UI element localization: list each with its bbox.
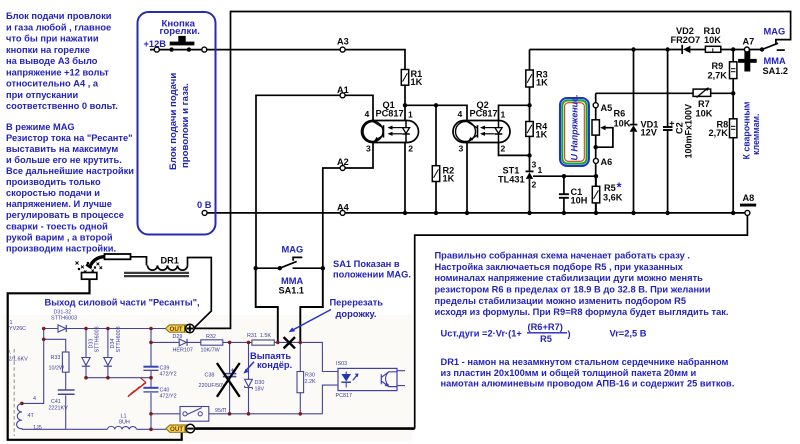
terminal circles: [154, 47, 750, 215]
svg-text:1: 1: [501, 109, 506, 119]
svg-text:2221KV: 2221KV: [49, 406, 69, 412]
label VD1 12V: [641, 120, 659, 138]
svg-text:SA1 Показан в: SA1 Показан в: [333, 259, 400, 269]
svg-text:PC817: PC817: [470, 109, 498, 119]
wire: bottom rail with L1: [22, 428, 166, 430]
svg-text:MAG: MAG: [282, 244, 304, 254]
svg-text:3: 3: [532, 160, 537, 170]
wire: A8 return loop down-left to OUT- riser: [415, 213, 748, 429]
wire: snubber column C39/C40: [150, 329, 152, 430]
wire: +12V / A3 line from torch button to R1: [150, 50, 405, 70]
wire: SA1.1 left drop to R31 output: [256, 268, 278, 342]
A8 terminal bar: [740, 204, 756, 207]
label VD2 FR207: [671, 26, 701, 45]
label А8: [743, 193, 755, 203]
label А5: [601, 103, 613, 113]
svg-text:номиналах напряжение стабилиза: номиналах напряжение стабилизации дуги м…: [435, 273, 704, 283]
svg-text:1K: 1K: [536, 130, 548, 140]
svg-text:при отпускании: при отпускании: [6, 90, 78, 100]
label MAG (SA1.1): [282, 244, 304, 254]
svg-text:TL431: TL431: [498, 175, 525, 185]
svg-text:А8: А8: [743, 193, 755, 203]
svg-text:1: 1: [408, 109, 413, 119]
svg-text:выставить на максимум: выставить на максимум: [6, 144, 118, 154]
label Выпаять кондёр. + arrow: [243, 351, 292, 374]
workpiece: [82, 273, 97, 280]
svg-text:MAG: MAG: [764, 26, 786, 36]
svg-text:10H: 10H: [571, 196, 588, 206]
HV transformer winding: [17, 404, 22, 430]
label Q1 PC817 pins 4 1 3 2: [365, 100, 414, 154]
label MAG (SA1.2): [764, 26, 786, 36]
svg-text:Настройка заключаеться подборе: Настройка заключаеться подборе R5 , при …: [435, 262, 684, 272]
label IS03 PC817: [336, 361, 352, 399]
diode D31: [58, 325, 66, 332]
svg-text:2: 2: [532, 180, 537, 190]
label L1 8UH: [119, 414, 130, 426]
svg-text:напряжение +12 вольт: напряжение +12 вольт: [6, 67, 109, 77]
svg-text:резистором R6 в пределах от 18: резистором R6 в пределах от 18.9 В до 32…: [435, 285, 711, 295]
resistor R9: [730, 62, 737, 79]
inductor DR1: [124, 265, 189, 276]
svg-text:R31 1.5K: R31 1.5K: [247, 333, 271, 339]
wire: R33 branch top: [44, 339, 66, 429]
svg-text:4T: 4T: [28, 413, 35, 419]
svg-text:К сварочным: К сварочным: [742, 102, 752, 160]
svg-text:IS03: IS03: [336, 361, 347, 367]
svg-text:PC817: PC817: [376, 109, 404, 119]
svg-text:2.2K: 2.2K: [305, 379, 316, 385]
inductor L1: [108, 426, 137, 429]
wire: rectifier output rail y=377.7: [86, 377, 151, 379]
svg-text:10/2W: 10/2W: [49, 366, 65, 372]
wire: C38 branch: [229, 342, 231, 413]
svg-text:FR2O7: FR2O7: [671, 35, 701, 45]
capacitor C41: [58, 390, 75, 394]
svg-text:OUT: OUT: [170, 426, 183, 433]
svg-text:YV26C: YV26C: [9, 326, 26, 332]
R6 wiper link: [596, 128, 613, 148]
svg-text:и газа любой , главное: и газа любой , главное: [6, 22, 111, 32]
label MMA (SA1.2): [764, 56, 786, 66]
label D30 18V: [255, 380, 265, 393]
label D31-32 STTH6003: [51, 310, 77, 322]
wire: relay row: [151, 385, 338, 414]
label C41 2221KV: [49, 399, 69, 412]
label А1: [337, 85, 349, 95]
svg-text:Перерезать: Перерезать: [330, 297, 384, 307]
label Q2 PC817 pins 4 1 3 2: [458, 100, 506, 154]
label А6: [601, 157, 613, 167]
wire: Q2 pin2 to R4 bottom junction: [499, 143, 530, 156]
wire: 0V bus A4..A8: [205, 212, 748, 214]
resistor R5: [592, 186, 599, 203]
svg-text:2,7K: 2,7K: [708, 71, 728, 81]
resistor R32: [201, 340, 223, 345]
svg-text:12V: 12V: [641, 128, 658, 138]
svg-text:D30: D30: [255, 380, 265, 386]
svg-text:А5: А5: [601, 103, 613, 113]
text block: left explanation: [6, 11, 118, 111]
label ST1 TL431 pins: [498, 160, 543, 190]
svg-text:3,6K: 3,6K: [603, 193, 623, 203]
svg-text:0 В: 0 В: [197, 200, 212, 210]
svg-text:STTH6003: STTH6003: [95, 326, 101, 352]
svg-text:2: 2: [501, 144, 506, 154]
svg-text:4: 4: [365, 109, 370, 119]
resistor R30: [297, 372, 304, 393]
svg-text:В режиме MAG: В режиме MAG: [6, 122, 75, 132]
transformer core dashed line: [13, 349, 15, 436]
label +12В: [144, 39, 167, 49]
label R7 10K: [696, 99, 713, 119]
wire: R30 branch: [299, 342, 301, 413]
svg-text:Vr=2,5 В: Vr=2,5 В: [610, 329, 647, 339]
label А3: [337, 36, 349, 46]
svg-text:Uст.дуги =2·Vr·(1+: Uст.дуги =2·Vr·(1+: [441, 329, 523, 339]
capacitor C39: [143, 367, 158, 371]
label R2 1K: [443, 166, 455, 184]
wire: A5 down through R6 to A6: [595, 93, 597, 213]
label MMA (SA1.1): [281, 276, 303, 286]
svg-text:SA1.2: SA1.2: [763, 66, 789, 76]
svg-text:(R6+R7): (R6+R7): [528, 322, 563, 332]
wire: R2 branch: [435, 105, 437, 213]
svg-text:горелки.: горелки.: [160, 26, 200, 37]
svg-text:проволоки и газа.: проволоки и газа.: [180, 83, 191, 168]
svg-text:SA1.1: SA1.1: [279, 285, 305, 295]
welding plus terminal mark: [738, 50, 757, 72]
svg-text:OUT: OUT: [170, 326, 183, 333]
torch button plunger: [170, 36, 195, 45]
svg-text:10K: 10K: [696, 109, 713, 119]
wire: VD1 branch: [633, 50, 635, 213]
label Кнопка горелки.: [160, 18, 200, 37]
text block: tuning explanation: [435, 250, 729, 317]
svg-text:соответственно 0 вольт.: соответственно 0 вольт.: [6, 101, 118, 111]
diode D33: [82, 358, 90, 367]
capacitor C38 (to remove): [223, 368, 237, 376]
optocoupler Q2: [453, 121, 510, 143]
wire: Q1 pin2 to 0V bus: [404, 143, 406, 213]
label R10 10K: [704, 26, 722, 45]
svg-text:Резистор тока на "Ресанте": Резистор тока на "Ресанте": [6, 133, 133, 143]
label R32 10K/7W: [201, 334, 221, 354]
wire: junction row y=105 to Q2 pin 4: [405, 105, 467, 120]
resistor R10: [705, 46, 720, 52]
wire: C1 branch: [563, 176, 565, 213]
wire: R3-R4-TL431 chain column: [529, 50, 531, 213]
wire: R5 branch: [595, 176, 597, 213]
svg-text:Выход силовой части "Ресанты",: Выход силовой части "Ресанты",: [45, 298, 200, 308]
label D34 STTH6003 (rotated): [110, 326, 122, 352]
optocoupler IS03: [338, 368, 397, 390]
wire: scan top rail to OUT+: [44, 328, 166, 330]
svg-text:производить только: производить только: [6, 177, 101, 187]
svg-text:Блок подачи провлоки: Блок подачи провлоки: [6, 11, 112, 21]
svg-text:ММА: ММА: [281, 276, 303, 286]
svg-text:3: 3: [459, 143, 464, 153]
svg-text:А3: А3: [337, 36, 349, 46]
label DR1: [161, 256, 179, 266]
wire: Q2 pin3 to 0V bus: [466, 143, 468, 213]
label К сварочным клеммам. (rotated): [742, 102, 762, 160]
svg-text:на выводе А3 было: на выводе А3 было: [6, 56, 98, 66]
wire: left HV column: [22, 329, 44, 404]
label R30 2.2K: [305, 373, 316, 386]
label R8 2,7K: [709, 120, 729, 139]
svg-text:и больше его не крутить.: и больше его не крутить.: [6, 155, 122, 165]
label А4: [337, 202, 350, 212]
svg-text:): ): [568, 329, 571, 339]
label Перерезать дорожку. + arrow: [289, 297, 384, 332]
label R33 10/2W: [49, 355, 65, 372]
label SA1 Показан в положении MAG.: [333, 259, 411, 279]
SA1.2 switch arm and MMA stub: [762, 43, 785, 50]
svg-text:R5: R5: [540, 334, 552, 344]
svg-text:1K: 1K: [443, 174, 455, 184]
label R6 10K: [614, 109, 631, 129]
capacitor C1: [559, 194, 569, 198]
svg-text:D29: D29: [173, 334, 183, 340]
svg-text:10K: 10K: [704, 35, 721, 45]
svg-text:из пластин 20x100мм и общей т: из пластин 20x100мм и общей толщиной пак…: [441, 368, 697, 378]
capacitor C40: [143, 388, 158, 392]
relay contact: [180, 407, 209, 422]
label R9 2,7K: [708, 61, 728, 81]
blue block: wire feeder unit box: [138, 12, 216, 235]
svg-text:относительно А4 , а: относительно А4 , а: [6, 79, 99, 89]
svg-text:PC817: PC817: [336, 393, 352, 399]
svg-text:положении MAG.: положении MAG.: [333, 269, 411, 279]
svg-text:U Напряжение.: U Напряжение.: [570, 95, 580, 161]
svg-text:1: 1: [538, 165, 543, 175]
wire: top-right supply rail from R3 corner to SA1.2: [530, 49, 763, 51]
svg-text:1K: 1K: [411, 77, 423, 87]
svg-text:исходя из формулы. При R9=R8: исходя из формулы. При R9=R8 формула буд…: [435, 307, 729, 317]
svg-text:472/Y2: 472/Y2: [160, 372, 177, 378]
svg-text:Правильно собранная схема наче: Правильно собранная схема наченает работ…: [435, 250, 690, 260]
label Выход силовой части Ресанты: [45, 298, 200, 308]
shunt regulator ST1 TL431: [526, 171, 534, 179]
svg-text:8UH: 8UH: [119, 420, 130, 426]
svg-text:дорожку.: дорожку.: [336, 309, 377, 319]
svg-text:А6: А6: [601, 157, 613, 167]
svg-text:100mFx100V: 100mFx100V: [684, 104, 694, 159]
svg-text:скоростью подачи и: скоростью подачи и: [6, 188, 100, 198]
svg-text:C38: C38: [205, 373, 215, 379]
svg-text:кнопки на горелке: кнопки на горелке: [6, 45, 90, 55]
svg-text:R9: R9: [712, 61, 724, 71]
svg-text:DR1: DR1: [161, 256, 179, 266]
label D29 HER107: [173, 334, 193, 354]
svg-text:HER107: HER107: [173, 348, 193, 354]
wire: D30 branch: [248, 342, 250, 413]
svg-text:рукой варим , а второй: рукой варим , а второй: [6, 232, 113, 242]
trimmer R7: [693, 87, 711, 97]
svg-text:2,7K: 2,7K: [709, 128, 729, 138]
wire: DR1 to OUT+: [131, 257, 212, 328]
wire: OUT- thick lead right to riser: [195, 427, 415, 430]
zener D30: [245, 379, 253, 389]
OUT- flag: [166, 424, 195, 433]
label (rotated): Блок подачи подачи / проволоки и газа.: [168, 73, 191, 170]
IS03 output stubs: [397, 371, 405, 386]
wire: outer border loop from OUT+ up-around to SA1.2 MAG contact: [194, 12, 791, 329]
wire: R1 bottom to Q1 pin1 junction: [404, 85, 406, 120]
cut-track X mark: [284, 337, 295, 348]
optocoupler Q1: [362, 121, 419, 143]
svg-text:STTH6003: STTH6003: [116, 326, 122, 352]
svg-text:18V: 18V: [255, 387, 265, 393]
svg-text:регулировать в процессе: регулировать в процессе: [6, 210, 124, 220]
svg-text:клеммам.: клеммам.: [751, 113, 761, 155]
potentiometer R6: [592, 120, 606, 135]
label SA1.1: [279, 285, 305, 295]
label C39 472/Y2: [160, 366, 177, 378]
svg-text:Блок подачи подачи: Блок подачи подачи: [168, 73, 179, 170]
diode D34: [104, 358, 112, 367]
wire: Q2 pin1 up to R3/R4 junction: [499, 105, 530, 120]
svg-text:R5: R5: [604, 183, 616, 193]
svg-text:R6: R6: [614, 109, 626, 119]
resistor R3: [526, 70, 533, 87]
wire: main scan row with D29 R32 R31: [151, 342, 338, 371]
label R1 1K: [411, 69, 423, 87]
wire: A5/R7 row y=93.3: [596, 92, 734, 94]
svg-text:472/Y2: 472/Y2: [160, 394, 177, 400]
U voltage callout box: [560, 95, 589, 166]
X over C38: [217, 363, 240, 397]
label R3 1K: [536, 70, 548, 88]
svg-text:10K: 10K: [614, 119, 631, 129]
resistor R2: [432, 166, 439, 182]
diode VD2: [682, 45, 690, 54]
chassis ground (red): [128, 378, 146, 397]
label SA1.2: [763, 66, 789, 76]
svg-text:напряжением. И лучше: напряжением. И лучше: [6, 199, 112, 209]
label D33 STTH6003 (rotated): [89, 326, 101, 352]
wire: A2 line to SA1.1 MMA side: [323, 143, 373, 269]
svg-text:Все дальнейшие настройки: Все дальнейшие настройки: [6, 166, 134, 176]
label C40 472/Y2: [160, 388, 177, 400]
label C1 10H: [571, 187, 588, 206]
resistor R31: [252, 340, 274, 345]
svg-text:производим настройки.: производим настройки.: [6, 243, 116, 253]
resistor R4: [526, 122, 533, 137]
wire: R9 branch: [732, 50, 734, 94]
svg-text:R32: R32: [206, 334, 216, 340]
label R31 1.5K: [247, 333, 271, 339]
labels 1 YV26C 2/1.6KV 4 4T 1J5: [9, 320, 42, 431]
wire: A1 line to SA1.1 common: [256, 95, 373, 268]
svg-text:1K: 1K: [536, 78, 548, 88]
svg-text:4: 4: [458, 109, 463, 119]
label 95/P: [215, 408, 226, 414]
resistor R1: [401, 70, 408, 86]
svg-text:3: 3: [366, 143, 371, 153]
scan junction dots: [20, 327, 302, 431]
SA1.1 assembly: [256, 257, 323, 268]
svg-text:сварки - тоесть одной: сварки - тоесть одной: [6, 221, 108, 231]
wire: C2 branch: [667, 50, 669, 213]
wire: TL431 ref line: [533, 175, 596, 177]
svg-text:95/П: 95/П: [215, 408, 226, 414]
svg-text:DR1 - намон на незамкнутом ста: DR1 - намон на незамкнутом стальном серд…: [441, 357, 729, 367]
svg-text:R33: R33: [51, 355, 61, 361]
label А2: [337, 157, 349, 167]
svg-text:1J5: 1J5: [33, 425, 42, 431]
svg-text:C41: C41: [51, 399, 61, 405]
svg-text:STTH6003: STTH6003: [51, 316, 77, 322]
svg-text:намотан алюминевым проводом АП: намотан алюминевым проводом АПВ-16 и сод…: [441, 379, 735, 389]
welding torch barrel: [86, 254, 130, 268]
svg-text:2: 2: [408, 144, 413, 154]
resistor R33: [62, 352, 69, 372]
wire: welding workpiece loop to OUT-: [8, 279, 182, 440]
svg-text:R7: R7: [698, 99, 710, 109]
svg-text:А7: А7: [743, 37, 755, 47]
text block: DR1 winding note: [441, 357, 735, 389]
svg-text:ММА: ММА: [764, 56, 786, 66]
svg-text:2/1.6KV: 2/1.6KV: [9, 357, 29, 363]
label R4 1K: [536, 122, 549, 140]
scanned paper background: [3, 315, 412, 442]
label C38 220UF/50V: [199, 373, 227, 390]
sparks at torch tip: [76, 262, 103, 273]
capacitor C2 (electrolytic): [663, 121, 674, 130]
wire: D33/D34 branches: [86, 329, 108, 378]
wire: SA1.1 right drop to after-X point: [300, 268, 323, 342]
wire: R8 branch to 0V bus: [732, 93, 734, 213]
label 0 В: [197, 200, 212, 210]
svg-text:4: 4: [33, 396, 36, 402]
svg-text:R30: R30: [305, 373, 315, 379]
resistor R8: [730, 119, 737, 138]
svg-text:пределы стабилизации можно изм: пределы стабилизации можно изменить подб…: [435, 296, 687, 306]
zener VD1: [630, 125, 638, 132]
diode D29: [179, 339, 187, 346]
OUT+ flag: [166, 324, 195, 333]
formula Uст.дуги: [441, 322, 647, 344]
label А7: [743, 37, 755, 47]
svg-text:что бы при нажатии: что бы при нажатии: [6, 34, 99, 44]
svg-text:10K/7W: 10K/7W: [201, 348, 221, 354]
svg-text:кондёр.: кондёр.: [257, 360, 292, 370]
label C2 100mFx100V (rotated): [675, 104, 694, 159]
label R5 * 3,6K: [603, 180, 623, 203]
